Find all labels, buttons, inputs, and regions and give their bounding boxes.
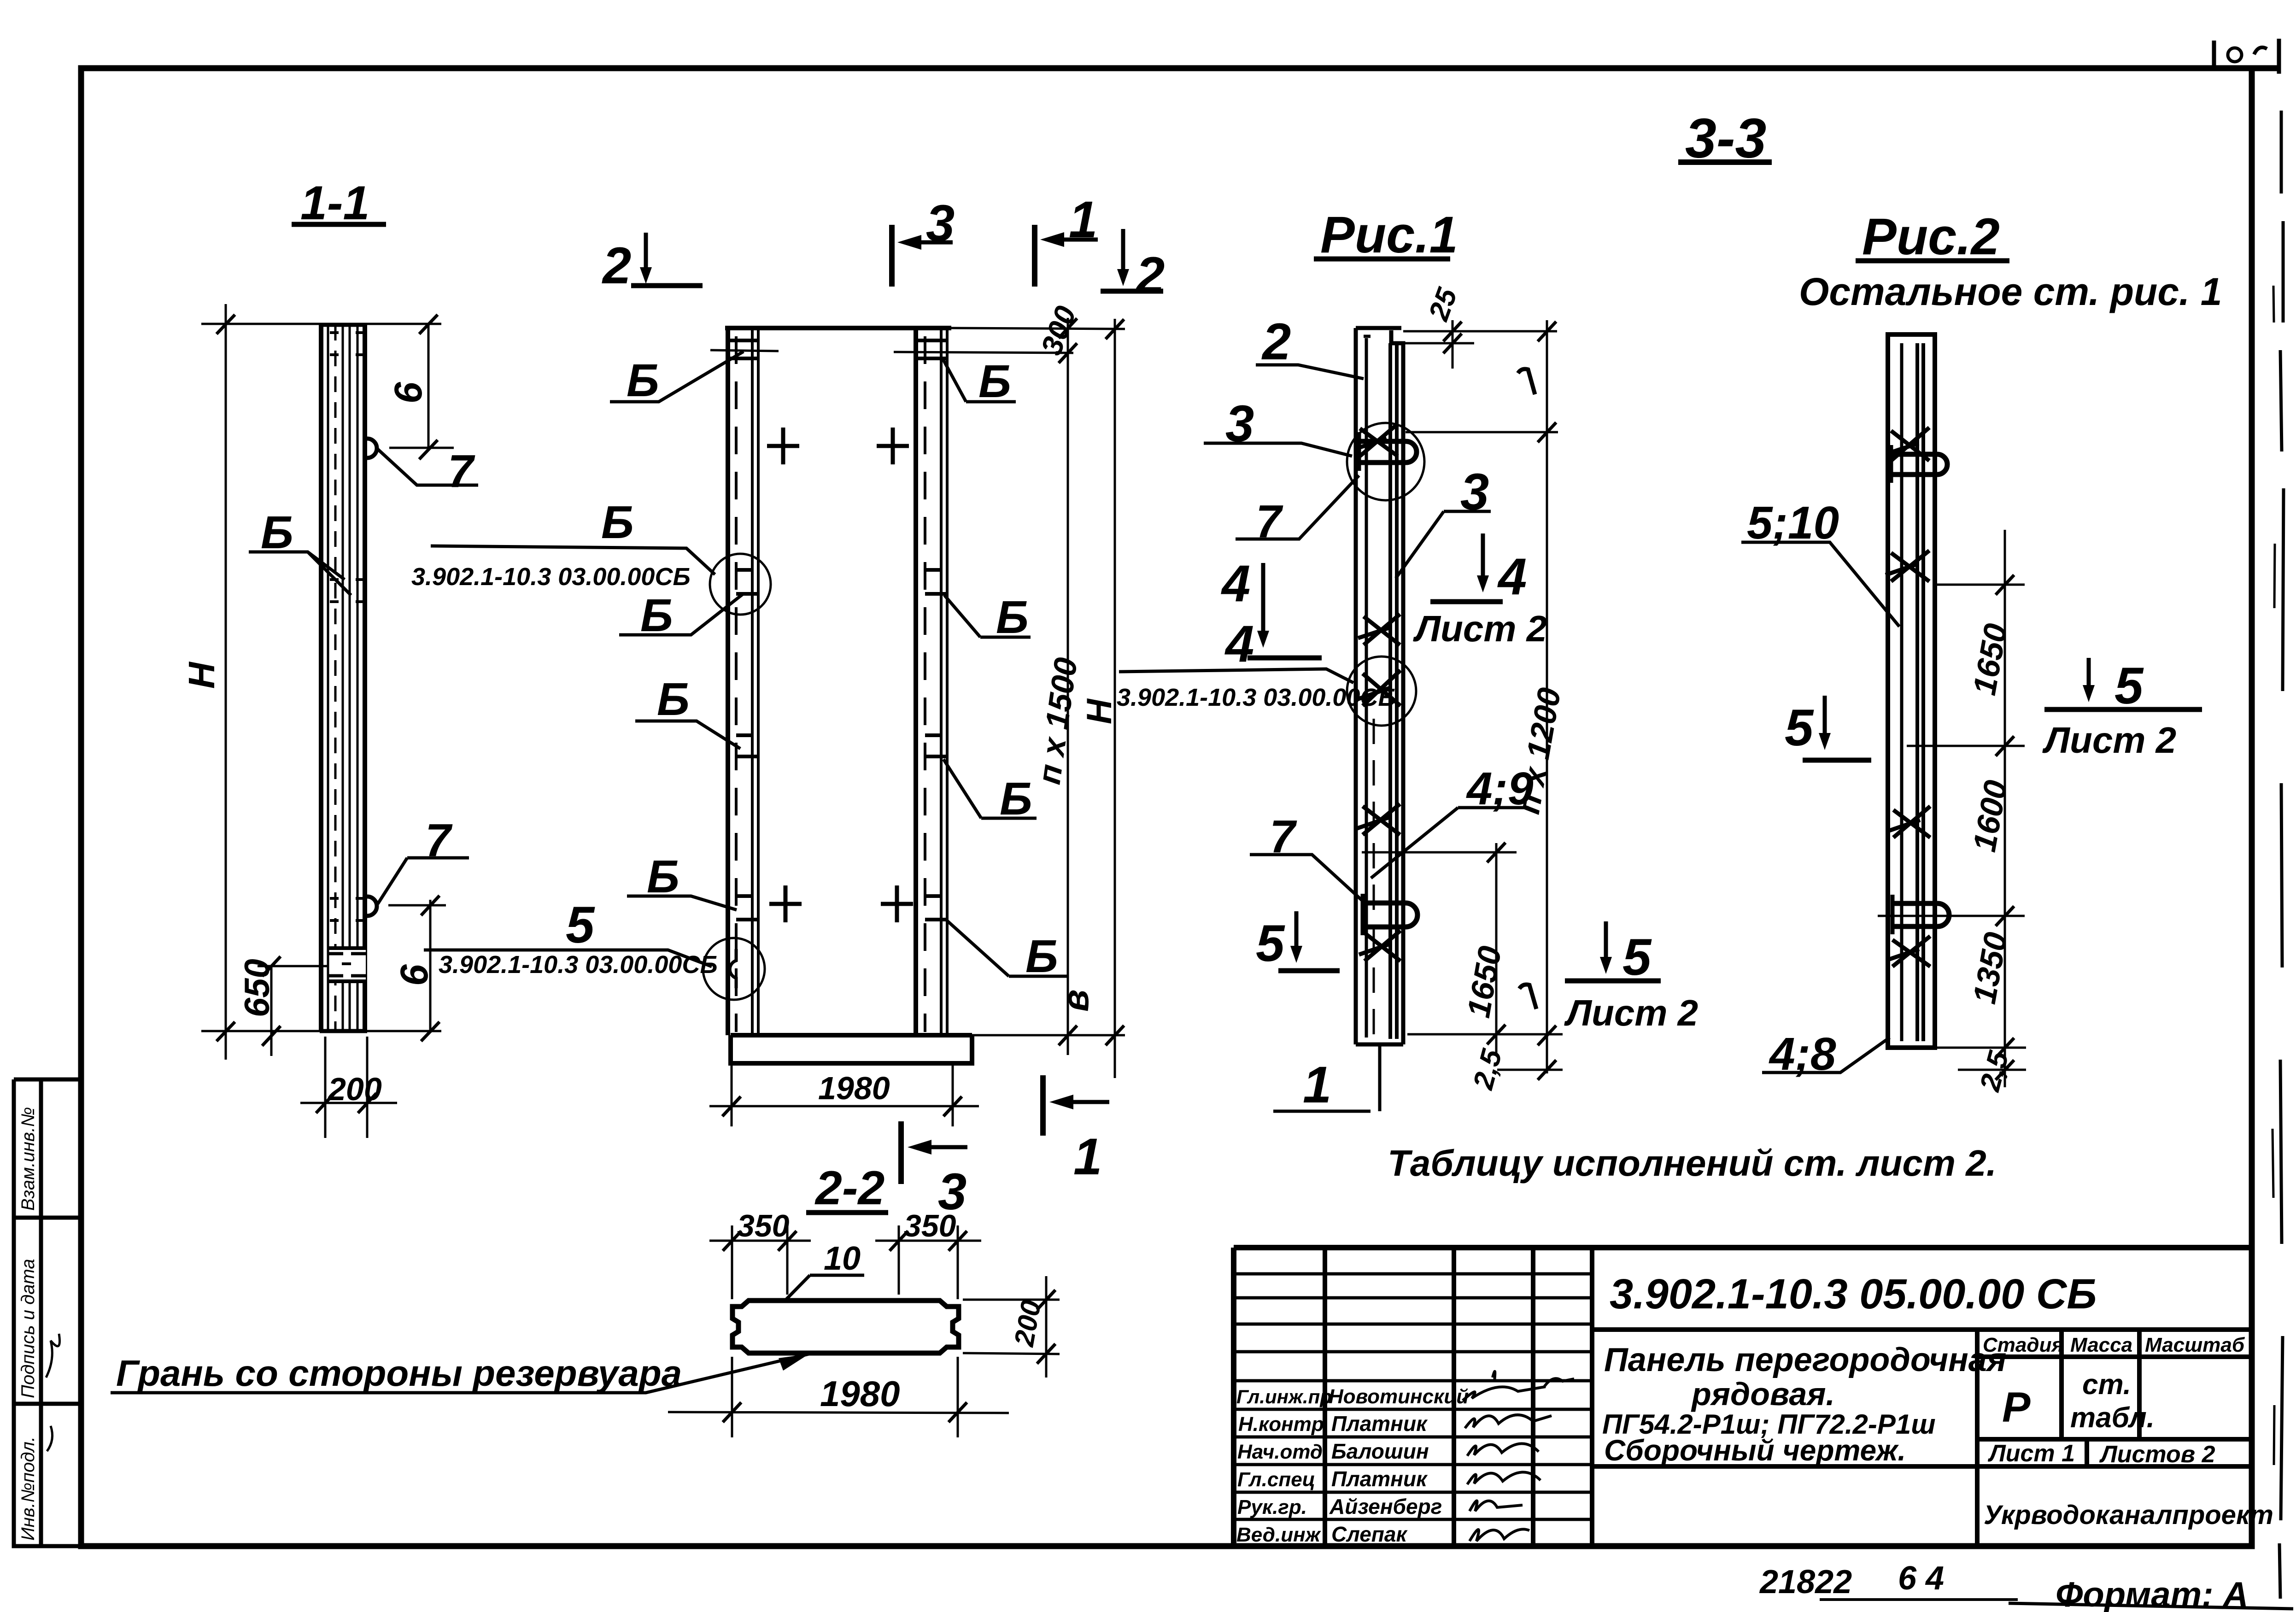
right joint column: [914, 328, 918, 1035]
detail circle around notch: [703, 938, 765, 1000]
svg-text:1980: 1980: [818, 1070, 890, 1106]
panel strip outline: [1888, 334, 1935, 1048]
svg-text:3: 3: [926, 194, 955, 252]
level line 300 right: [894, 352, 1073, 353]
left thin rows: [1234, 1274, 1592, 1352]
svg-text:Лист 2: Лист 2: [2042, 720, 2176, 761]
panel top/bottom edges: [320, 325, 367, 1031]
inner bars: [1900, 343, 1904, 1041]
marker 5 down right with List 2: [1604, 921, 1608, 964]
top ladder rungs right column: [916, 340, 947, 358]
marker 5 down right with List 2: [2087, 658, 2091, 692]
svg-text:Нач.отд: Нач.отд: [1237, 1441, 1323, 1463]
svg-text:Рис.2: Рис.2: [1862, 208, 2000, 265]
svg-text:Гл.инж.пр: Гл.инж.пр: [1236, 1386, 1332, 1407]
svg-text:200: 200: [327, 1071, 382, 1107]
svg-text:табл.: табл.: [2070, 1402, 2155, 1434]
dim 1650: [1362, 843, 1563, 1055]
svg-text:Айзенберг: Айзенберг: [1329, 1495, 1442, 1518]
svg-text:2: 2: [1135, 246, 1165, 304]
tie boxes left column: [736, 570, 758, 920]
embedded part dashes middle: [330, 580, 364, 602]
dim 200 below: [300, 1037, 397, 1138]
panel body vertical lines: [321, 325, 365, 1031]
dim 200 right: [963, 1276, 1060, 1378]
svg-text:Б: Б: [978, 356, 1011, 407]
svg-text:Масштаб: Масштаб: [2145, 1334, 2245, 1356]
right part dividers: [1592, 1330, 2252, 1546]
mesh line pos2: [1365, 338, 1368, 1038]
svg-text:Лист 2: Лист 2: [1564, 992, 1698, 1033]
section marker 1 bottom: [1040, 1075, 1046, 1136]
svg-text:Рук.гр.: Рук.гр.: [1237, 1496, 1307, 1518]
svg-text:Рис.1: Рис.1: [1320, 206, 1458, 264]
svg-text:Балошин: Балошин: [1331, 1439, 1429, 1463]
detail circle mid: [1347, 657, 1416, 726]
outer box: [1234, 1248, 2252, 1546]
svg-text:Подпись и дата: Подпись и дата: [18, 1259, 38, 1398]
panel top edge: [725, 326, 951, 330]
svg-text:Масса: Масса: [2070, 1334, 2132, 1356]
svg-text:5: 5: [1785, 699, 1814, 756]
svg-text:3.902.1-10.3 03.00.00СБ: 3.902.1-10.3 03.00.00СБ: [1117, 684, 1396, 711]
centering crosses: [767, 428, 799, 464]
dim 1980 bottom: [668, 1357, 1009, 1437]
carcass bars pos3: [1390, 343, 1397, 1039]
svg-text:Б: Б: [1025, 931, 1058, 982]
panel strip outline: [1356, 328, 1401, 1044]
keyway pocket detail bottom: [330, 947, 366, 982]
lifting loop bottom (pos 7): [367, 897, 377, 916]
lifting loop top (pos 7): [367, 439, 377, 458]
svg-text:6 4: 6 4: [1898, 1560, 1944, 1597]
svg-text:5: 5: [1256, 914, 1285, 972]
embedded part dashes top: [330, 333, 364, 355]
section marker 3 top: [889, 225, 895, 287]
svg-text:Слепак: Слепак: [1331, 1522, 1408, 1546]
X mark 4: [1359, 931, 1400, 961]
svg-text:Платник: Платник: [1331, 1412, 1428, 1436]
X mark 1 with loop: [1886, 428, 1929, 461]
label 7 top leader: [378, 449, 478, 485]
svg-text:Н: Н: [181, 661, 222, 689]
svg-text:7: 7: [448, 445, 475, 497]
svg-text:Панель перегородочная: Панель перегородочная: [1604, 1342, 2006, 1378]
svg-text:1: 1: [1303, 1056, 1331, 1114]
svg-text:Платник: Платник: [1331, 1467, 1428, 1491]
dim 6 top right: [389, 324, 454, 449]
svg-text:Б: Б: [627, 355, 659, 406]
svg-text:в: в: [1055, 990, 1096, 1012]
svg-text:5: 5: [1622, 928, 1652, 986]
dim 25 top: [1391, 320, 1557, 369]
dim 650: [258, 966, 328, 1056]
signatures: [1463, 1387, 1546, 1401]
hidden line: [1373, 719, 1375, 1037]
overall dim line H: [1114, 319, 1116, 1078]
svg-text:ст.: ст.: [2082, 1369, 2131, 1401]
left inventory strip: [14, 1079, 81, 1546]
top-right corner box: [2214, 39, 2279, 74]
svg-text:1: 1: [1069, 191, 1097, 248]
svg-text:350: 350: [737, 1208, 790, 1243]
section marker 2 top-right: [1121, 229, 1125, 276]
svg-text:1: 1: [1073, 1128, 1102, 1185]
svg-text:Взам.инв.№: Взам.инв.№: [18, 1107, 38, 1211]
svg-text:3.902.1-10.3 03.00.00СБ: 3.902.1-10.3 03.00.00СБ: [439, 951, 718, 979]
section marker 1 top: [1032, 225, 1037, 287]
svg-text:650: 650: [238, 959, 277, 1017]
svg-text:3.902.1-10.3 05.00.00 СБ: 3.902.1-10.3 05.00.00 СБ: [1610, 1271, 2097, 1318]
svg-text:5: 5: [566, 896, 595, 954]
top ladder rungs left column: [728, 340, 758, 358]
svg-text:Укрводоканалпроект: Укрводоканалпроект: [1984, 1500, 2273, 1530]
X mark 2: [1358, 614, 1400, 645]
svg-text:2-2: 2-2: [814, 1161, 884, 1215]
tie boxes right column: [925, 570, 947, 920]
svg-text:Б: Б: [601, 497, 634, 548]
dim 350 right: [875, 1225, 981, 1299]
left joint column: [726, 328, 730, 1035]
svg-text:10: 10: [824, 1240, 861, 1277]
svg-text:Вед.инж: Вед.инж: [1236, 1524, 1322, 1546]
svg-text:Лист 2: Лист 2: [1413, 608, 1547, 649]
bottom band: [731, 1035, 972, 1063]
svg-text:3.902.1-10.3 03.00.00СБ: 3.902.1-10.3 03.00.00СБ: [411, 563, 691, 591]
X mark circled mid: [1357, 670, 1400, 706]
svg-text:Таблицу исполнений ст. лист: Таблицу исполнений ст. лист 2.: [1388, 1143, 1997, 1184]
X mark 2: [1886, 551, 1929, 581]
svg-text:6: 6: [392, 964, 436, 986]
dim line n x 1500: [1067, 318, 1069, 1055]
svg-text:2: 2: [1261, 313, 1291, 370]
main verticals: [1325, 1248, 1592, 1546]
X mark 3: [1357, 804, 1400, 835]
dim chain right: [2004, 530, 2006, 1087]
svg-text:4: 4: [1224, 615, 1254, 673]
svg-text:4: 4: [1497, 548, 1527, 605]
svg-text:Гл.спец: Гл.спец: [1237, 1468, 1315, 1491]
svg-text:Б: Б: [996, 592, 1029, 643]
svg-text:Н: Н: [1080, 698, 1119, 724]
svg-text:Остальное ст. рис. 1: Остальное ст. рис. 1: [1799, 270, 2222, 313]
svg-text:Инв.№подл.: Инв.№подл.: [18, 1436, 38, 1541]
svg-text:Н.контр: Н.контр: [1238, 1413, 1324, 1436]
svg-text:Сборочный чертеж.: Сборочный чертеж.: [1604, 1434, 1906, 1467]
datum G bottom: [1519, 985, 1536, 1009]
detail circle around upper tie box: [710, 554, 771, 615]
svg-text:Лист 1: Лист 1: [1987, 1440, 2075, 1467]
right edge scan artifacts: [2273, 111, 2284, 1599]
level line G: [1406, 431, 1558, 434]
detail circle top: [1347, 423, 1424, 500]
svg-text:Листов 2: Листов 2: [2099, 1441, 2215, 1468]
dim line m x 1200: [1546, 320, 1548, 1073]
bottom annotations: [1759, 1560, 2293, 1612]
section marker 3 bottom: [898, 1121, 904, 1184]
svg-text:Новотинский: Новотинский: [1329, 1385, 1469, 1408]
dim 350 left: [709, 1225, 811, 1299]
notch detail on joint line: [730, 949, 736, 988]
X mark 4 with loop: [1887, 936, 1930, 967]
embedded part dashes lower: [330, 898, 364, 920]
svg-text:Стадия: Стадия: [1983, 1334, 2063, 1356]
overall height dim line H: [225, 304, 227, 1060]
svg-text:рядовая.: рядовая.: [1691, 1376, 1835, 1412]
svg-text:Р: Р: [2002, 1384, 2031, 1431]
dim 1980: [709, 1065, 979, 1126]
svg-text:Грань со стороны резервуара: Грань со стороны резервуара: [116, 1353, 682, 1394]
svg-text:2: 2: [602, 237, 631, 294]
svg-text:350: 350: [904, 1208, 956, 1243]
svg-text:1980: 1980: [820, 1373, 900, 1414]
hairpin loop top pos7: [1359, 441, 1417, 463]
svg-text:4: 4: [1221, 555, 1250, 612]
slab outline: [732, 1301, 959, 1353]
dim 6 bottom right: [388, 900, 446, 1033]
svg-text:Б: Б: [657, 674, 690, 725]
marker 4 down right with List 2: [1481, 533, 1485, 581]
svg-text:6: 6: [387, 381, 430, 404]
svg-text:21822: 21822: [1759, 1564, 1852, 1600]
level line 300 left: [710, 350, 779, 351]
datum G top: [1518, 369, 1535, 394]
X mark 3: [1888, 806, 1930, 838]
hairpin loop bottom pos7: [1363, 903, 1417, 927]
X mark 1: [1354, 424, 1398, 456]
svg-text:5: 5: [2114, 657, 2144, 715]
